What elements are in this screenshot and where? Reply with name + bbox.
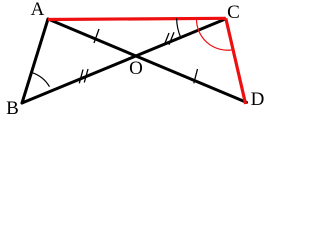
angle arc ACD at C (red) <box>196 18 232 50</box>
tick marks on OC (double) <box>164 32 174 45</box>
tick marks on BO (double) <box>79 69 88 83</box>
segment CD (red right side) <box>226 18 246 104</box>
svg-text:D: D <box>251 89 265 110</box>
segment AB (left side) <box>22 19 48 103</box>
angle arc at B <box>32 72 50 86</box>
svg-text:B: B <box>6 98 19 119</box>
svg-text:O: O <box>129 58 143 79</box>
angle arc ACB at C (black) <box>177 18 181 37</box>
segment AD (diagonal through O) <box>48 19 247 102</box>
segment BC (diagonal through O) <box>22 20 224 103</box>
svg-text:A: A <box>31 0 45 20</box>
segment AC (red top side) <box>48 18 226 19</box>
svg-text:C: C <box>227 2 240 23</box>
tick mark on AO (single) <box>94 29 99 43</box>
tick mark on OD (single) <box>194 69 198 83</box>
